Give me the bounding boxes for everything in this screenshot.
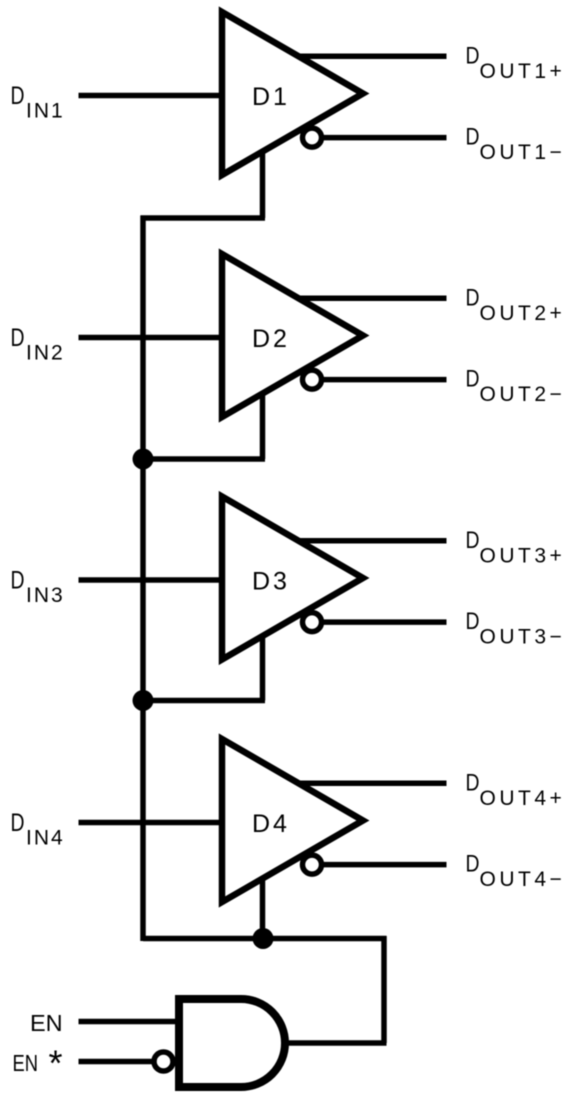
inversion bubble on D1 inverting output	[303, 128, 322, 147]
driver triangle D1	[222, 12, 363, 175]
label EN*	[13, 1043, 63, 1084]
wire: D2 enable drop	[260, 388, 266, 459]
label D4 (inside triangle)	[252, 810, 287, 838]
svg-text:D: D	[11, 809, 25, 837]
label D1 (inside triangle)	[252, 83, 286, 111]
svg-text:D: D	[11, 567, 25, 595]
wire: D_OUT3+ output line	[299, 538, 447, 544]
wire: enable horizontal from D1 drop to rail	[141, 215, 266, 221]
svg-text:D: D	[466, 527, 480, 554]
label EN	[30, 1010, 63, 1036]
svg-text:D: D	[466, 769, 480, 796]
junction dot: rail / D3 enable	[133, 690, 154, 711]
svg-text:D: D	[466, 851, 480, 878]
wire: bottom enable horizontal	[143, 936, 387, 942]
label D_IN1	[11, 82, 65, 123]
driver triangle D3	[222, 497, 363, 660]
driver triangle D4	[222, 739, 363, 902]
wire: D_IN3 input line	[79, 577, 223, 583]
svg-text:OUT2−: OUT2−	[480, 383, 566, 406]
inversion bubble on EN* input	[154, 1052, 173, 1071]
label D_OUT1+	[466, 42, 566, 83]
svg-text:OUT4−: OUT4−	[480, 868, 566, 891]
wire: EN input	[79, 1019, 180, 1025]
svg-text:D 2: D 2	[252, 325, 286, 353]
wire: enable horizontal from rail to D2 drop	[143, 456, 265, 462]
svg-text:OUT1+: OUT1+	[480, 60, 566, 83]
svg-text:IN3: IN3	[26, 584, 65, 607]
svg-text:D: D	[466, 608, 480, 635]
label D_OUT3-	[466, 608, 566, 649]
svg-text:D: D	[466, 124, 480, 151]
label D_OUT2-	[466, 366, 566, 407]
wire: D4 enable drop	[260, 873, 266, 939]
svg-text:EN: EN	[13, 1050, 39, 1076]
wire: EN* input	[79, 1059, 154, 1065]
label D_IN4	[11, 809, 65, 850]
svg-text:D 1: D 1	[252, 83, 286, 111]
svg-text:IN1: IN1	[26, 100, 65, 123]
svg-text:D: D	[466, 366, 480, 393]
svg-text:OUT2+: OUT2+	[480, 302, 566, 325]
svg-text:D: D	[466, 284, 480, 311]
wire: D1 enable drop	[260, 146, 266, 218]
driver triangle D2	[222, 254, 363, 417]
svg-text:IN2: IN2	[26, 342, 65, 365]
wire: D3 enable drop	[260, 630, 266, 700]
svg-text:OUT3−: OUT3−	[480, 626, 566, 649]
wire: AND gate output	[285, 1040, 387, 1046]
wire: vertical enable rail	[140, 216, 146, 942]
wire: D_IN4 input line	[79, 820, 223, 826]
svg-text:D 3: D 3	[252, 568, 286, 596]
wire: D_OUT3- output line	[320, 619, 447, 625]
wire: D_IN2 input line	[79, 335, 223, 341]
wire: vertical from AND output up to enable net	[381, 936, 387, 1043]
wire: D_OUT2- output line	[320, 377, 447, 383]
label D_IN3	[11, 567, 65, 608]
wire: D_OUT4- output line	[320, 862, 447, 868]
svg-text:D: D	[11, 82, 25, 110]
wire: enable horizontal from rail to D3 drop	[143, 698, 265, 704]
label D2 (inside triangle)	[252, 325, 286, 353]
junction dot: rail / D2 enable	[133, 449, 154, 470]
wire: D_IN1 input line	[79, 93, 223, 99]
svg-text:OUT1−: OUT1−	[480, 141, 566, 164]
svg-text:IN4: IN4	[26, 827, 65, 850]
label D_IN2	[11, 324, 65, 365]
svg-text:EN: EN	[30, 1010, 63, 1036]
label D_OUT2+	[466, 284, 566, 325]
inversion bubble on D3 inverting output	[303, 613, 322, 632]
AND gate (enable)	[179, 999, 285, 1087]
svg-text:D: D	[466, 42, 480, 69]
junction dot: D4 drop / bottom enable	[253, 928, 274, 949]
label D_OUT1-	[466, 124, 566, 165]
label D_OUT4+	[466, 769, 566, 810]
wire: D_OUT2+ output line	[299, 296, 447, 302]
wire: D_OUT1- output line	[320, 135, 447, 141]
svg-text:*: *	[49, 1043, 63, 1084]
svg-text:OUT4+: OUT4+	[480, 787, 566, 810]
wire: D_OUT4+ output line	[299, 781, 447, 787]
svg-text:D 4: D 4	[252, 810, 287, 838]
label D3 (inside triangle)	[252, 568, 286, 596]
label D_OUT3+	[466, 527, 566, 568]
inversion bubble on D4 inverting output	[303, 855, 322, 874]
wire: D_OUT1+ output line	[299, 54, 447, 60]
label D_OUT4-	[466, 851, 566, 892]
inversion bubble on D2 inverting output	[303, 370, 322, 389]
svg-text:OUT3+: OUT3+	[480, 544, 566, 567]
svg-text:D: D	[11, 324, 25, 352]
